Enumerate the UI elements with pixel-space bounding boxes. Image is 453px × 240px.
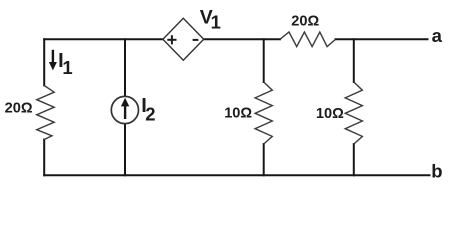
svg-text:1: 1: [62, 57, 72, 78]
svg-text:10Ω: 10Ω: [316, 106, 344, 122]
svg-text:1: 1: [211, 12, 221, 33]
svg-text:10Ω: 10Ω: [224, 106, 252, 122]
svg-text:20Ω: 20Ω: [5, 100, 33, 116]
svg-text:a: a: [432, 25, 443, 46]
svg-text:20Ω: 20Ω: [291, 14, 319, 30]
svg-text:b: b: [431, 160, 442, 181]
svg-text:2: 2: [145, 103, 155, 124]
